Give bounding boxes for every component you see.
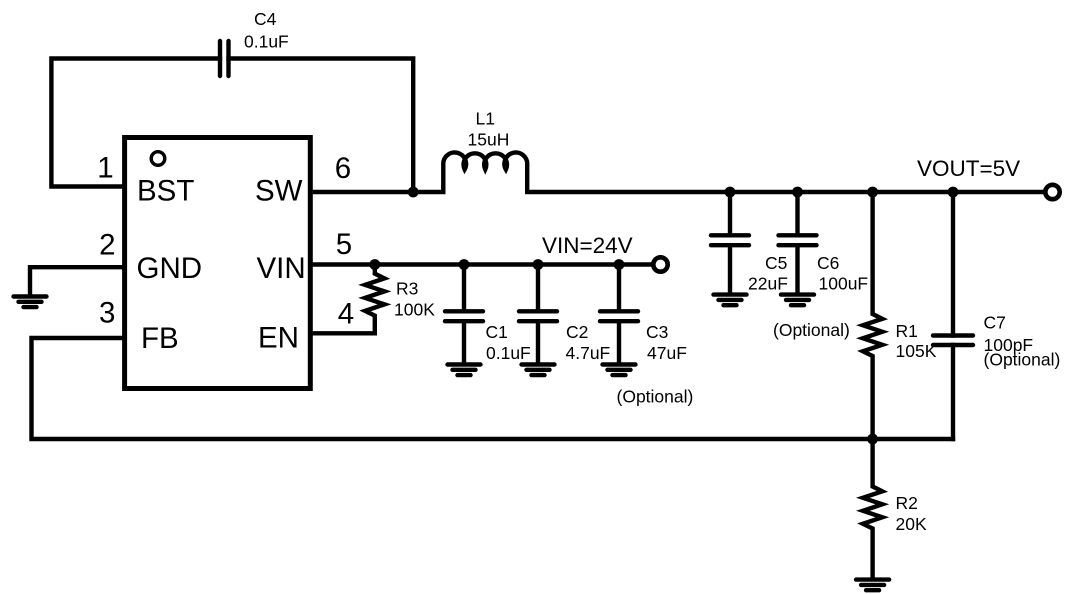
svg-text:(Optional): (Optional) (984, 350, 1061, 370)
inductor L1 (443, 152, 527, 192)
capacitor C1 (462, 265, 466, 364)
ground (C5) (714, 295, 747, 306)
svg-text:SW: SW (255, 175, 303, 208)
svg-text:R1: R1 (896, 321, 918, 341)
svg-text:3: 3 (99, 296, 115, 329)
pin 1 indicator circle (151, 152, 165, 166)
node VOUT terminal (1045, 185, 1059, 199)
svg-text:C4: C4 (254, 9, 277, 29)
node VIN C1 junction (459, 259, 470, 270)
node VIN C2 junction (533, 259, 544, 270)
svg-text:1: 1 (97, 152, 113, 185)
wire C4 right plate to SW node (229, 59, 414, 193)
svg-text:(Optional): (Optional) (773, 320, 850, 340)
svg-text:BST: BST (137, 175, 194, 208)
svg-text:C2: C2 (566, 322, 588, 342)
wire L1 to VOUT terminal (527, 190, 1043, 194)
svg-text:15uH: 15uH (468, 130, 510, 150)
svg-text:L1: L1 (476, 109, 495, 129)
resistor R3 (311, 265, 385, 334)
svg-text:C7: C7 (984, 313, 1006, 333)
svg-text:FB: FB (141, 322, 179, 355)
ground (R2) (856, 580, 889, 591)
node VIN terminal (653, 257, 667, 271)
svg-text:GND: GND (137, 252, 203, 285)
IC U1 body (125, 138, 311, 389)
svg-text:47uF: 47uF (647, 343, 687, 363)
ground (C6) (781, 295, 814, 306)
node VOUT C7 junction (948, 187, 959, 198)
ground (GND pin) (14, 297, 47, 308)
svg-text:C3: C3 (646, 322, 668, 342)
node VIN C3 junction (614, 259, 625, 270)
svg-text:0.1uF: 0.1uF (486, 343, 531, 363)
node VOUT C5 junction (725, 187, 736, 198)
wire FB pin to bottom rail (32, 338, 954, 439)
ground (C1) (448, 365, 481, 376)
wire VIN pin to VIN terminal (311, 262, 652, 266)
svg-text:4: 4 (338, 298, 354, 331)
node FB divider junction (867, 434, 878, 445)
wire BST loop left: C4 left plate to pin 1 (51, 59, 220, 187)
capacitor C5 (728, 192, 732, 293)
svg-text:20K: 20K (896, 514, 927, 534)
svg-text:(Optional): (Optional) (617, 387, 694, 407)
node VIN R3 junction (369, 259, 380, 270)
ground (C2) (522, 365, 555, 376)
node VOUT C6 junction (792, 187, 803, 198)
svg-text:4.7uF: 4.7uF (566, 343, 611, 363)
svg-text:6: 6 (335, 152, 351, 185)
svg-text:R2: R2 (896, 493, 918, 513)
svg-text:0.1uF: 0.1uF (244, 31, 289, 51)
node VOUT R1 junction (867, 187, 878, 198)
capacitor C6 (795, 192, 799, 293)
ground (C3) (603, 365, 636, 376)
svg-text:5: 5 (336, 228, 352, 261)
svg-text:22uF: 22uF (748, 273, 788, 293)
node SW junction (408, 187, 419, 198)
svg-text:EN: EN (258, 322, 299, 355)
svg-text:C1: C1 (486, 322, 508, 342)
capacitor C4 (220, 41, 229, 76)
svg-text:100K: 100K (394, 300, 435, 320)
svg-text:C6: C6 (817, 253, 839, 273)
svg-text:C5: C5 (765, 253, 787, 273)
svg-text:105K: 105K (896, 341, 937, 361)
resistor R1 (863, 192, 882, 439)
svg-text:R3: R3 (396, 278, 418, 298)
svg-text:VIN: VIN (257, 252, 306, 285)
svg-text:VIN=24V: VIN=24V (542, 233, 633, 258)
svg-text:2: 2 (99, 229, 115, 262)
capacitor C2 (536, 265, 540, 364)
capacitor C3 (617, 265, 621, 364)
wire GND pin to ground (30, 267, 123, 294)
wire SW pin to L1 (311, 190, 443, 194)
resistor R2 (863, 439, 882, 578)
svg-text:100uF: 100uF (819, 273, 869, 293)
svg-text:VOUT=5V: VOUT=5V (917, 156, 1020, 181)
capacitor C7 (951, 192, 955, 439)
